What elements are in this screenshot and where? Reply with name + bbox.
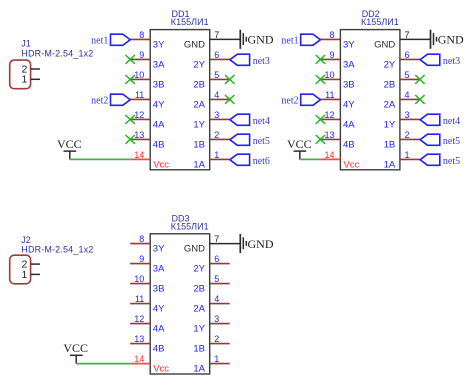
no-connect X on DD2 pin 13 xyxy=(316,135,325,144)
svg-text:net2: net2 xyxy=(281,96,298,107)
DD1 pin 3 (1Y) xyxy=(193,110,229,130)
svg-text:2A: 2A xyxy=(193,304,205,315)
svg-text:9: 9 xyxy=(139,254,144,264)
svg-text:8: 8 xyxy=(139,30,144,40)
DD3 pin 12 (4A) xyxy=(130,314,165,335)
DD2 pin 11 (4Y) xyxy=(320,90,355,111)
svg-text:1A: 1A xyxy=(193,364,205,375)
svg-text:4A: 4A xyxy=(153,324,165,335)
net label net5 on DD2 pin 2 xyxy=(420,134,460,147)
connector J2 reference designator xyxy=(21,235,31,245)
no-connect X on DD2 pin 12 xyxy=(316,115,325,124)
DD3 pin 4 (2A) xyxy=(193,294,229,315)
IC DD1 value К155ЛИ1 xyxy=(171,17,209,27)
DD1 pin 6 (2Y) xyxy=(193,50,229,71)
connector J1 body xyxy=(10,60,31,89)
DD3 pin 5 (2B) xyxy=(193,274,229,295)
svg-text:1: 1 xyxy=(214,150,219,160)
DD1 pin 8 (3Y) xyxy=(130,30,165,51)
svg-text:1B: 1B xyxy=(193,344,205,355)
DD1 pin 7 (GND) xyxy=(184,30,240,51)
svg-text:GND: GND xyxy=(248,33,274,47)
net label net4 on DD2 pin 3 xyxy=(420,114,460,127)
DD2 pin 8 (3Y) xyxy=(320,30,355,51)
svg-text:8: 8 xyxy=(139,234,144,244)
DD2 pin 4 (2A) xyxy=(384,90,420,111)
DD3 pin 14 (Vcc) xyxy=(130,354,169,375)
svg-text:13: 13 xyxy=(324,130,334,140)
svg-text:1Y: 1Y xyxy=(193,119,205,130)
svg-text:3Y: 3Y xyxy=(153,39,165,50)
IC DD2 body xyxy=(340,30,400,170)
svg-text:3Y: 3Y xyxy=(153,244,165,255)
svg-text:2Y: 2Y xyxy=(384,59,396,70)
VCC power symbol xyxy=(287,137,312,159)
svg-text:4B: 4B xyxy=(343,139,355,150)
svg-text:2B: 2B xyxy=(193,284,205,295)
svg-text:3B: 3B xyxy=(153,79,165,90)
svg-text:13: 13 xyxy=(134,334,144,344)
DD1 pin 12 (4A) xyxy=(130,110,165,130)
svg-text:2A: 2A xyxy=(193,99,205,110)
net label net1 on DD2 pin 8 xyxy=(281,34,320,46)
svg-text:net5: net5 xyxy=(253,136,270,147)
svg-text:1Y: 1Y xyxy=(193,324,205,335)
svg-text:2Y: 2Y xyxy=(193,59,205,70)
DD2 pin 12 (4A) xyxy=(320,110,355,130)
no-connect X on DD1 pin 4 xyxy=(225,95,234,104)
svg-text:10: 10 xyxy=(134,70,144,80)
net label net3 on DD1 pin 6 xyxy=(230,54,270,67)
VCC power symbol xyxy=(57,137,82,159)
DD2 pin 7 (GND) xyxy=(374,30,430,51)
DD3 pin 6 (2Y) xyxy=(193,254,229,275)
net label net3 on DD2 pin 6 xyxy=(420,54,460,67)
svg-text:GND: GND xyxy=(184,244,205,255)
DD2 pin 1 (1A) xyxy=(384,150,420,171)
svg-text:13: 13 xyxy=(134,130,144,140)
ground symbol GND at DD1 pin 7 xyxy=(240,30,274,49)
svg-text:GND: GND xyxy=(438,33,464,47)
svg-text:J2: J2 xyxy=(21,235,31,245)
ground symbol GND at DD3 pin 7 xyxy=(240,234,274,253)
svg-text:1: 1 xyxy=(21,269,27,281)
IC DD3 value К155ЛИ1 xyxy=(171,221,209,231)
svg-text:7: 7 xyxy=(214,30,219,40)
svg-text:net3: net3 xyxy=(253,56,270,67)
svg-text:VCC: VCC xyxy=(287,137,312,151)
net label net4 on DD1 pin 3 xyxy=(230,114,270,127)
DD2 pin 9 (3A) xyxy=(320,50,355,71)
DD2 pin 5 (2B) xyxy=(384,70,420,91)
net label net1 on DD1 pin 8 xyxy=(91,34,130,46)
svg-text:Vcc: Vcc xyxy=(343,159,359,170)
svg-text:9: 9 xyxy=(139,50,144,60)
DD1 pin 4 (2A) xyxy=(193,90,229,111)
svg-text:3A: 3A xyxy=(153,264,165,275)
DD1 pin 2 (1B) xyxy=(193,130,229,151)
svg-text:5: 5 xyxy=(405,70,410,80)
no-connect X on DD1 pin 13 xyxy=(126,135,135,144)
svg-text:К155ЛИ1: К155ЛИ1 xyxy=(171,17,209,27)
J1 pin 1 xyxy=(21,74,40,86)
svg-text:5: 5 xyxy=(214,274,219,284)
DD3 pin 8 (3Y) xyxy=(130,234,165,255)
svg-text:4: 4 xyxy=(405,90,410,100)
DD2 pin 3 (1Y) xyxy=(384,110,420,130)
DD2 pin 10 (3B) xyxy=(320,70,354,91)
svg-text:4Y: 4Y xyxy=(343,99,355,110)
svg-text:11: 11 xyxy=(135,90,144,100)
connector J1 reference designator xyxy=(21,39,31,49)
DD1 pin 5 (2B) xyxy=(193,70,229,91)
svg-text:GND: GND xyxy=(248,237,274,251)
svg-text:3: 3 xyxy=(405,110,410,120)
J2 pin 1 xyxy=(21,269,40,281)
svg-text:12: 12 xyxy=(324,110,334,120)
svg-text:14: 14 xyxy=(134,150,144,160)
DD3 pin 9 (3A) xyxy=(130,254,165,275)
IC DD2 reference designator xyxy=(362,9,380,19)
svg-text:К155ЛИ1: К155ЛИ1 xyxy=(171,221,209,231)
DD3 pin 2 (1B) xyxy=(193,334,229,355)
no-connect X on DD2 pin 10 xyxy=(316,75,325,84)
svg-text:2: 2 xyxy=(214,334,219,344)
IC DD1 reference designator xyxy=(172,9,190,19)
svg-text:VCC: VCC xyxy=(63,341,88,355)
svg-text:1: 1 xyxy=(21,74,27,86)
DD3 pin 1 (1A) xyxy=(193,354,229,375)
DD2 pin 14 (Vcc) xyxy=(320,150,359,171)
IC DD1 body xyxy=(150,30,210,170)
svg-text:4A: 4A xyxy=(153,119,165,130)
svg-text:2: 2 xyxy=(214,130,219,140)
IC DD2 value К155ЛИ1 xyxy=(361,17,399,27)
DD1 pin 14 (Vcc) xyxy=(130,150,169,171)
svg-text:net1: net1 xyxy=(91,36,108,47)
svg-text:3B: 3B xyxy=(153,284,165,295)
svg-text:1: 1 xyxy=(214,354,219,364)
DD1 pin 13 (4B) xyxy=(130,130,164,151)
svg-text:3A: 3A xyxy=(153,59,165,70)
svg-text:4A: 4A xyxy=(343,119,355,130)
svg-text:3B: 3B xyxy=(343,79,355,90)
DD3 pin 7 (GND) xyxy=(184,234,240,255)
svg-text:3A: 3A xyxy=(343,59,355,70)
svg-text:3: 3 xyxy=(214,110,219,120)
DD1 pin 11 (4Y) xyxy=(130,90,165,111)
svg-text:3: 3 xyxy=(214,314,219,324)
svg-text:net5: net5 xyxy=(443,156,460,167)
svg-text:4Y: 4Y xyxy=(153,304,165,315)
svg-text:net4: net4 xyxy=(443,116,460,127)
wire VCC to pin 14 xyxy=(76,363,130,365)
net label net6 on DD1 pin 1 xyxy=(230,154,270,167)
svg-text:12: 12 xyxy=(134,314,144,324)
svg-text:1A: 1A xyxy=(384,159,396,170)
DD2 pin 2 (1B) xyxy=(384,130,420,151)
svg-text:10: 10 xyxy=(324,70,334,80)
svg-text:GND: GND xyxy=(184,39,205,50)
svg-text:1A: 1A xyxy=(193,159,205,170)
svg-text:2Y: 2Y xyxy=(193,264,205,275)
DD1 pin 9 (3A) xyxy=(130,50,165,71)
svg-text:14: 14 xyxy=(134,354,144,364)
svg-text:3Y: 3Y xyxy=(343,39,355,50)
svg-text:5: 5 xyxy=(214,70,219,80)
net label net5 on DD2 pin 1 xyxy=(420,154,460,167)
DD2 pin 13 (4B) xyxy=(320,130,354,151)
no-connect X on DD1 pin 10 xyxy=(126,75,135,84)
svg-text:GND: GND xyxy=(374,39,395,50)
svg-text:Vcc: Vcc xyxy=(153,364,169,375)
DD3 pin 11 (4Y) xyxy=(130,294,165,315)
svg-text:net2: net2 xyxy=(91,96,108,107)
svg-text:1B: 1B xyxy=(384,139,396,150)
svg-text:7: 7 xyxy=(214,234,219,244)
DD2 pin 6 (2Y) xyxy=(384,50,420,71)
net label net5 on DD1 pin 2 xyxy=(230,134,270,147)
svg-text:net6: net6 xyxy=(253,156,270,167)
no-connect X on DD2 pin 9 xyxy=(316,55,325,64)
svg-text:14: 14 xyxy=(324,150,334,160)
svg-text:HDR-M-2.54_1x2: HDR-M-2.54_1x2 xyxy=(21,245,93,255)
VCC power symbol xyxy=(63,341,88,363)
svg-text:4: 4 xyxy=(214,294,219,304)
svg-text:10: 10 xyxy=(134,274,144,284)
DD3 pin 3 (1Y) xyxy=(193,314,229,335)
svg-text:7: 7 xyxy=(405,30,410,40)
svg-text:4: 4 xyxy=(214,90,219,100)
net label net2 on DD2 pin 11 xyxy=(281,94,320,106)
no-connect X on DD1 pin 5 xyxy=(225,75,234,84)
svg-text:net1: net1 xyxy=(281,36,298,47)
svg-text:VCC: VCC xyxy=(57,137,82,151)
svg-text:net3: net3 xyxy=(443,56,460,67)
connector J2 body xyxy=(10,255,31,284)
DD1 pin 1 (1A) xyxy=(193,150,229,171)
svg-text:4B: 4B xyxy=(153,139,165,150)
svg-text:9: 9 xyxy=(329,50,334,60)
svg-text:11: 11 xyxy=(135,294,144,304)
connector J1 value HDR-M-2.54_1x2 xyxy=(21,48,93,58)
no-connect X on DD2 pin 5 xyxy=(415,75,424,84)
IC DD3 body xyxy=(150,234,210,374)
wire VCC to pin 14 xyxy=(70,158,130,160)
svg-text:1B: 1B xyxy=(193,139,205,150)
J2 pin 2 xyxy=(21,259,40,271)
svg-text:К155ЛИ1: К155ЛИ1 xyxy=(361,17,399,27)
svg-text:HDR-M-2.54_1x2: HDR-M-2.54_1x2 xyxy=(21,48,93,58)
svg-text:4Y: 4Y xyxy=(153,99,165,110)
svg-text:net5: net5 xyxy=(443,136,460,147)
svg-text:6: 6 xyxy=(214,254,219,264)
svg-text:1: 1 xyxy=(405,150,410,160)
svg-text:2A: 2A xyxy=(384,99,396,110)
svg-text:1Y: 1Y xyxy=(384,119,396,130)
svg-text:12: 12 xyxy=(134,110,144,120)
ground symbol GND at DD2 pin 7 xyxy=(431,30,465,49)
svg-text:8: 8 xyxy=(329,30,334,40)
DD1 pin 10 (3B) xyxy=(130,70,164,91)
DD3 pin 13 (4B) xyxy=(130,334,164,355)
no-connect X on DD2 pin 4 xyxy=(415,95,424,104)
net label net2 on DD1 pin 11 xyxy=(91,94,130,106)
no-connect X on DD1 pin 12 xyxy=(126,115,135,124)
wire VCC to pin 14 xyxy=(300,158,321,160)
svg-text:6: 6 xyxy=(405,50,410,60)
svg-text:2: 2 xyxy=(405,130,410,140)
IC DD3 reference designator xyxy=(172,213,190,223)
J1 pin 2 xyxy=(21,63,40,75)
svg-text:net4: net4 xyxy=(253,116,270,127)
svg-text:2B: 2B xyxy=(384,79,396,90)
svg-text:Vcc: Vcc xyxy=(153,159,169,170)
svg-text:4B: 4B xyxy=(153,344,165,355)
connector J2 value HDR-M-2.54_1x2 xyxy=(21,245,93,255)
svg-text:11: 11 xyxy=(325,90,334,100)
no-connect X on DD1 pin 9 xyxy=(126,55,135,64)
svg-text:6: 6 xyxy=(214,50,219,60)
DD3 pin 10 (3B) xyxy=(130,274,164,295)
svg-text:2B: 2B xyxy=(193,79,205,90)
svg-text:J1: J1 xyxy=(21,39,31,49)
